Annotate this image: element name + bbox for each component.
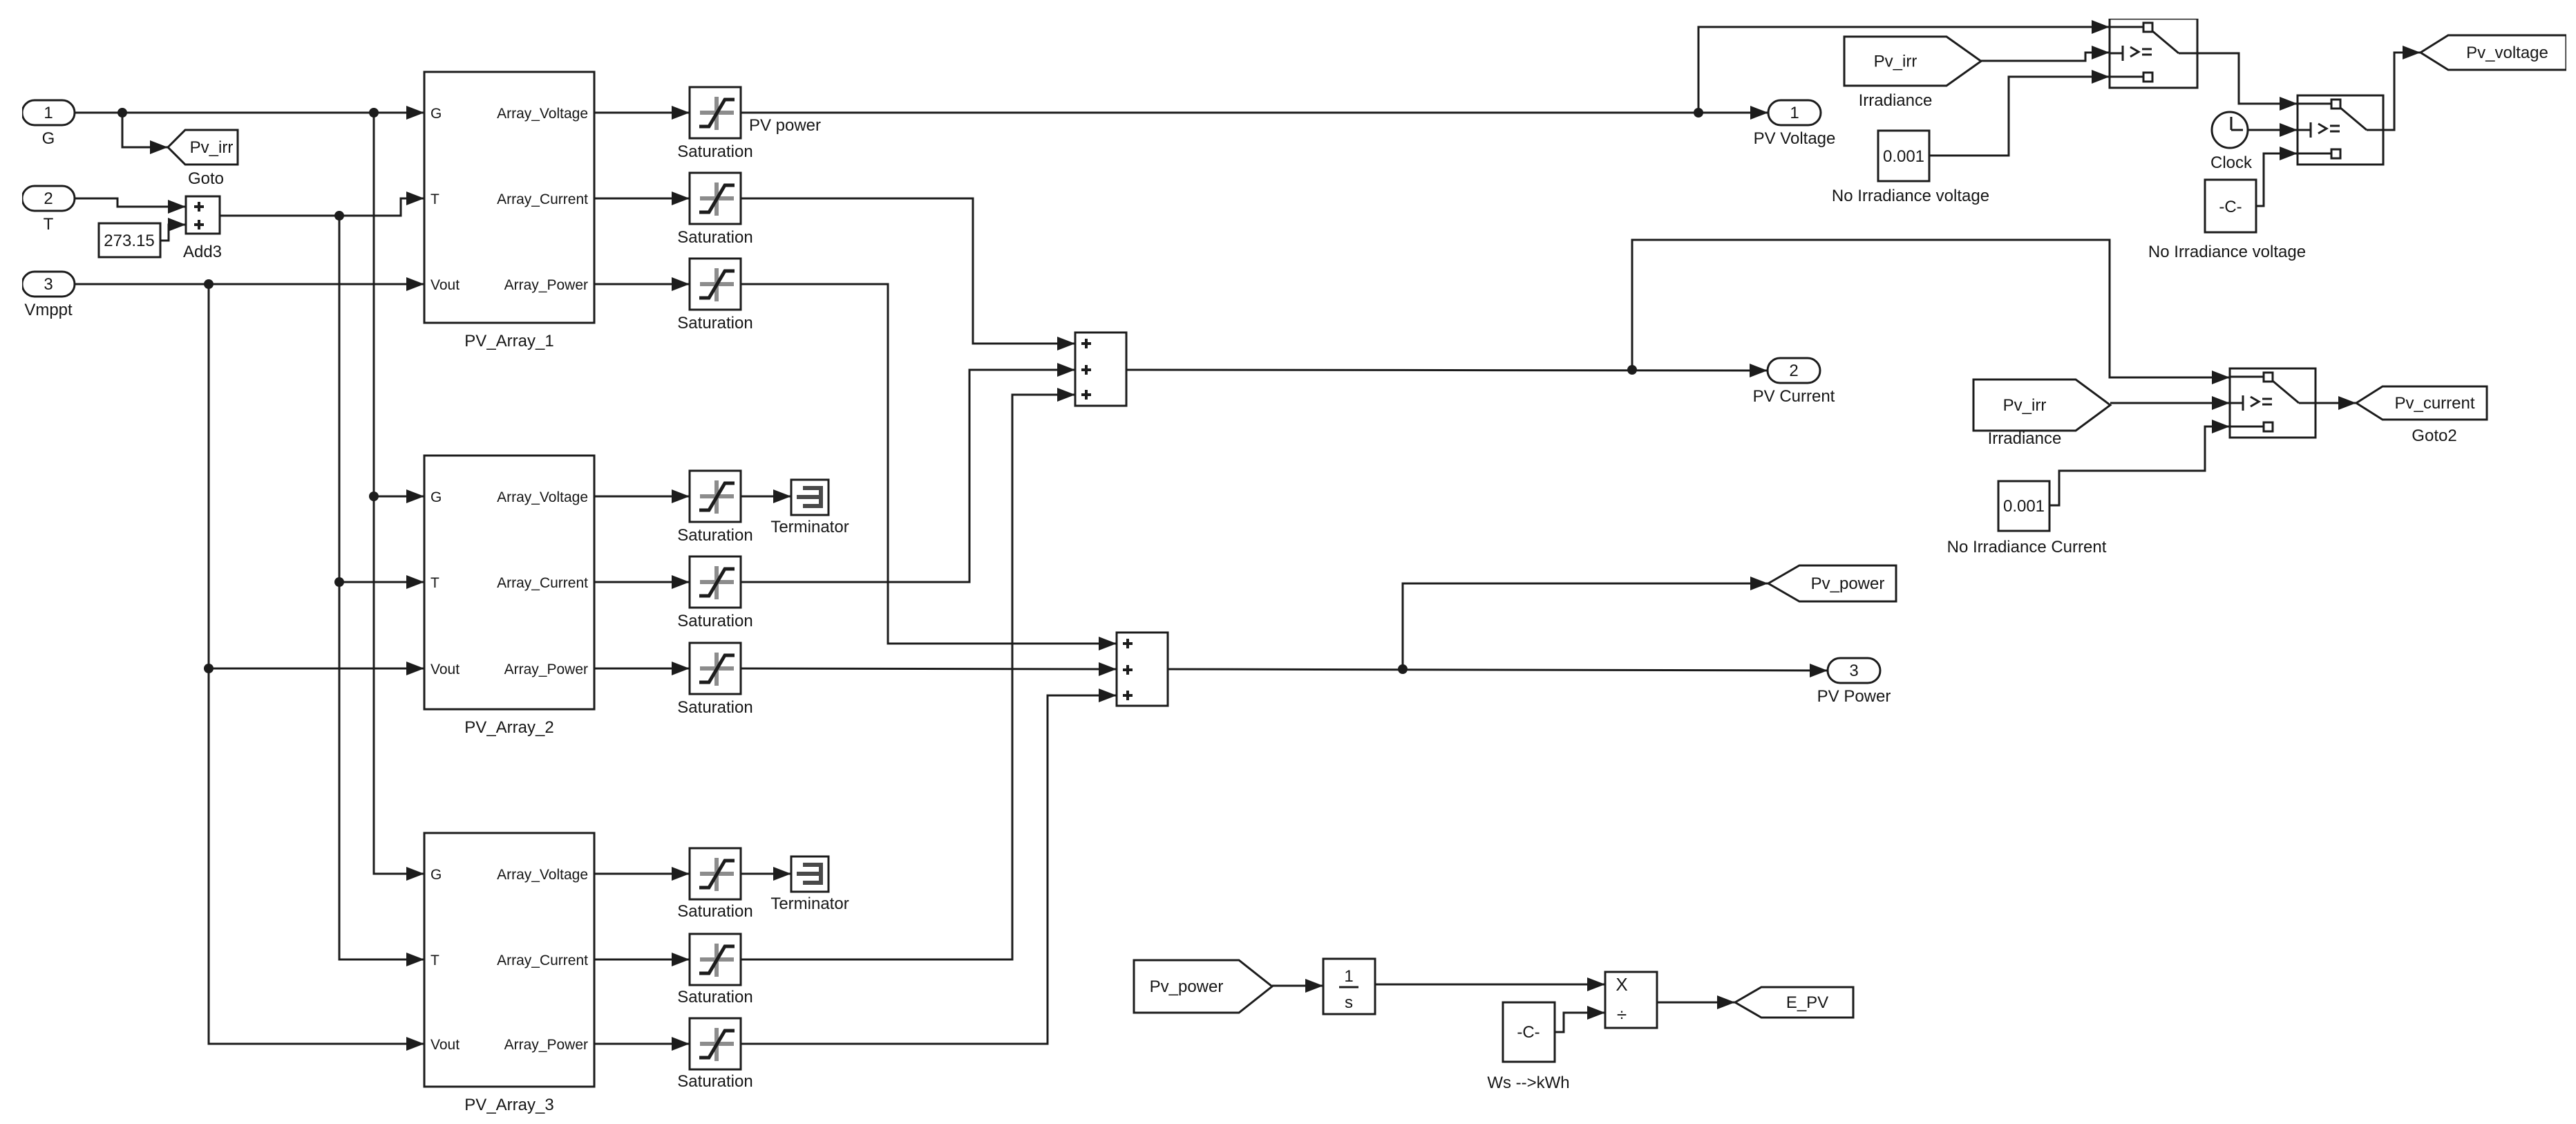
svg-text:E_PV: E_PV	[1786, 993, 1828, 1012]
svg-text:Array_Power: Array_Power	[504, 662, 588, 677]
svg-text:Saturation: Saturation	[677, 902, 752, 921]
svg-text:G: G	[430, 489, 442, 505]
svg-text:PV_Array_3: PV_Array_3	[464, 1096, 553, 1114]
svg-text:Ws -->kWh: Ws -->kWh	[1487, 1074, 1569, 1092]
svg-text:0.001: 0.001	[1883, 147, 1924, 166]
svg-text:Saturation: Saturation	[677, 698, 752, 717]
svg-text:1: 1	[44, 104, 53, 122]
svg-text:No Irradiance Current: No Irradiance Current	[1947, 538, 2107, 556]
svg-text:÷: ÷	[1617, 1004, 1627, 1025]
svg-text:Array_Voltage: Array_Voltage	[497, 867, 588, 883]
svg-text:Pv_current: Pv_current	[2394, 394, 2474, 413]
svg-text:Array_Current: Array_Current	[497, 575, 588, 591]
svg-text:-C-: -C-	[1517, 1023, 1540, 1042]
svg-text:1: 1	[1344, 967, 1353, 986]
svg-text:PV Power: PV Power	[1817, 687, 1891, 706]
svg-text:Add3: Add3	[183, 243, 222, 261]
svg-text:T: T	[430, 575, 439, 591]
svg-text:Pv_irr: Pv_irr	[1874, 53, 1917, 71]
svg-text:Goto2: Goto2	[2412, 427, 2456, 445]
svg-text:Pv_irr: Pv_irr	[2003, 396, 2047, 415]
svg-text:Saturation: Saturation	[677, 228, 752, 247]
svg-text:Saturation: Saturation	[677, 612, 752, 630]
svg-text:Vout: Vout	[430, 1037, 460, 1053]
svg-text:Terminator: Terminator	[770, 518, 849, 536]
svg-text:3: 3	[1849, 662, 1858, 680]
svg-text:T: T	[430, 953, 439, 968]
svg-text:Pv_power: Pv_power	[1811, 574, 1885, 593]
svg-text:PV_Array_2: PV_Array_2	[464, 718, 553, 737]
svg-text:0.001: 0.001	[2003, 497, 2045, 516]
svg-text:Pv_voltage: Pv_voltage	[2466, 44, 2548, 62]
svg-text:Array_Current: Array_Current	[497, 953, 588, 968]
svg-text:Array_Voltage: Array_Voltage	[497, 106, 588, 122]
svg-text:-C-: -C-	[2219, 198, 2242, 216]
svg-text:2: 2	[44, 189, 53, 208]
svg-text:Array_Power: Array_Power	[504, 1037, 588, 1053]
svg-text:PV Current: PV Current	[1753, 387, 1835, 406]
svg-text:Pv_power: Pv_power	[1150, 977, 1224, 996]
svg-text:Goto: Goto	[188, 169, 224, 188]
svg-text:PV power: PV power	[749, 116, 821, 135]
svg-text:G: G	[430, 867, 442, 883]
svg-text:G: G	[430, 106, 442, 122]
svg-text:273.15: 273.15	[104, 232, 154, 250]
svg-text:Vmppt: Vmppt	[24, 301, 73, 319]
svg-text:2: 2	[1789, 362, 1798, 380]
svg-text:Irradiance: Irradiance	[1859, 91, 1933, 110]
svg-text:Irradiance: Irradiance	[1988, 429, 2062, 448]
svg-text:Vout: Vout	[430, 277, 460, 293]
svg-text:Vout: Vout	[430, 662, 460, 677]
svg-text:G: G	[42, 129, 55, 148]
svg-text:No Irradiance voltage: No Irradiance voltage	[2148, 243, 2306, 261]
svg-text:T: T	[44, 215, 54, 234]
svg-text:Array_Power: Array_Power	[504, 277, 588, 293]
svg-text:Array_Current: Array_Current	[497, 191, 588, 207]
svg-text:Terminator: Terminator	[770, 894, 849, 913]
svg-text:PV_Array_1: PV_Array_1	[464, 332, 553, 350]
svg-text:Saturation: Saturation	[677, 314, 752, 332]
svg-text:Saturation: Saturation	[677, 526, 752, 545]
svg-text:No Irradiance voltage: No Irradiance voltage	[1832, 187, 1989, 205]
svg-text:Array_Voltage: Array_Voltage	[497, 489, 588, 505]
svg-text:X: X	[1616, 974, 1627, 995]
svg-text:Saturation: Saturation	[677, 1072, 752, 1091]
svg-text:Saturation: Saturation	[677, 142, 752, 161]
svg-text:s: s	[1345, 993, 1353, 1012]
svg-text:PV Voltage: PV Voltage	[1754, 129, 1836, 148]
svg-text:Saturation: Saturation	[677, 988, 752, 1006]
svg-text:3: 3	[44, 275, 53, 294]
svg-text:1: 1	[1790, 104, 1799, 122]
svg-text:Pv_irr: Pv_irr	[190, 138, 234, 157]
svg-text:T: T	[430, 191, 439, 207]
svg-text:Clock: Clock	[2210, 153, 2253, 172]
